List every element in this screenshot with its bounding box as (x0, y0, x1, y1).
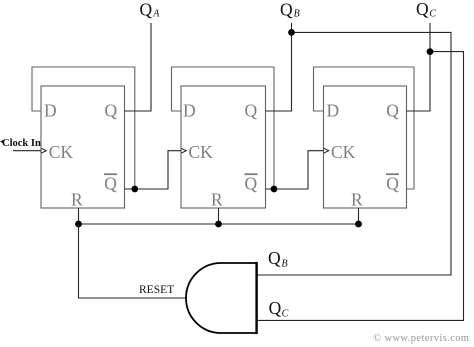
flip-flop U3 body (324, 86, 407, 208)
reset bus wire along R pins (79, 223, 359, 225)
svg-text:B: B (282, 259, 288, 270)
svg-text:Q: Q (416, 0, 429, 19)
svg-text:Q: Q (105, 100, 118, 120)
U3 clock input wedge (324, 148, 329, 153)
svg-text:Q: Q (268, 248, 281, 268)
AND gate flat edge (255, 262, 257, 334)
svg-text:© www.petervis.com: © www.petervis.com (373, 333, 469, 344)
svg-text:D: D (44, 100, 57, 120)
U2 R pin wire (218, 208, 220, 224)
svg-text:R: R (71, 190, 83, 210)
svg-text:CK: CK (331, 142, 356, 162)
flip-flop U1 body (41, 86, 125, 208)
svg-text:Q: Q (269, 298, 282, 318)
Clock In arrowhead (0, 140, 3, 144)
svg-text:RESET: RESET (139, 284, 174, 296)
AND gate U4 (186, 263, 257, 333)
svg-text:Clock In: Clock In (2, 138, 41, 149)
svg-text:C: C (429, 8, 436, 19)
junction U2.Qbar (271, 186, 278, 193)
svg-text:Q: Q (280, 0, 293, 19)
U1 feedback wire Qbar to D (32, 67, 135, 189)
wire AND gate output to reset bus (79, 224, 187, 298)
U2 feedback wire Qbar to D (172, 67, 275, 189)
svg-text:D: D (183, 100, 196, 120)
junction QB (288, 29, 295, 36)
svg-text:A: A (152, 9, 160, 20)
svg-text:Q: Q (140, 0, 153, 19)
junction R2 (215, 221, 222, 228)
wire node QC to AND gate input 2 (257, 52, 464, 321)
junction R3 (355, 221, 362, 228)
junction U1.Qbar (131, 186, 138, 193)
svg-text:D: D (327, 100, 340, 120)
svg-text:Q: Q (245, 100, 258, 120)
U3 Qbar overline (386, 173, 399, 175)
svg-text:CK: CK (189, 142, 214, 162)
svg-text:B: B (294, 9, 300, 20)
svg-text:Q: Q (386, 174, 399, 194)
svg-text:R: R (351, 190, 363, 210)
wire U2.Q to node QB (266, 23, 292, 111)
wire U1.Qbar to U2.CK (125, 151, 182, 189)
junction R1 (75, 221, 82, 228)
wire U2.Qbar to U3.CK (266, 151, 324, 189)
U1 Qbar overline (104, 173, 117, 175)
flip-flop U2 body (181, 86, 266, 208)
wire node QB to AND gate input 1 (257, 32, 451, 275)
U3 R pin wire (358, 208, 360, 224)
svg-text:CK: CK (49, 142, 74, 162)
svg-text:Q: Q (245, 174, 258, 194)
svg-text:Q: Q (104, 174, 117, 194)
U2 Qbar overline (245, 173, 258, 175)
U3 feedback wire Qbar to D (314, 67, 415, 189)
wire U1.Q to node QA (125, 23, 152, 111)
svg-text:Q: Q (386, 100, 399, 120)
junction QC (427, 48, 434, 55)
U1 clock input wedge (41, 148, 46, 153)
svg-text:R: R (211, 190, 223, 210)
wire U3.Q to node QC (407, 23, 431, 111)
Clock In wire (13, 150, 41, 152)
U1 R pin wire (78, 208, 80, 224)
U2 clock input wedge (181, 148, 186, 153)
svg-text:C: C (282, 308, 289, 319)
